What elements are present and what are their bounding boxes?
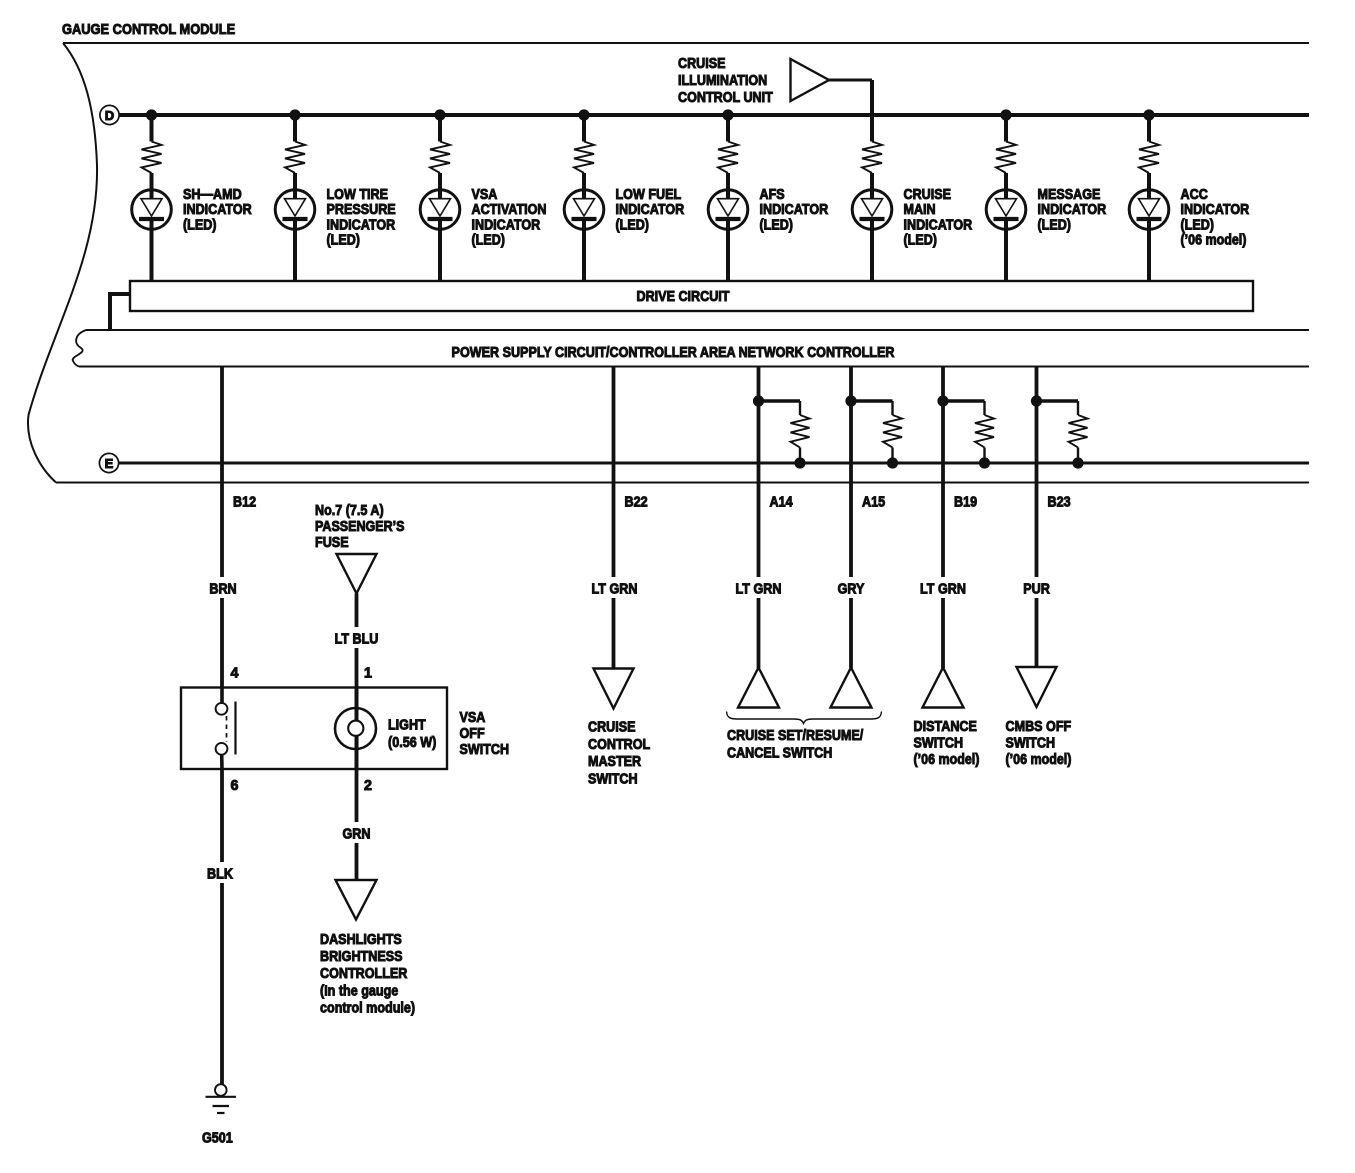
svg-text:DASHLIGHTS: DASHLIGHTS <box>320 932 402 948</box>
svg-text:CONTROLLER: CONTROLLER <box>320 966 408 982</box>
svg-text:B12: B12 <box>233 495 256 511</box>
svg-text:SWITCH: SWITCH <box>460 742 510 758</box>
svg-text:INDICATOR: INDICATOR <box>760 202 829 218</box>
svg-text:(’06 model): (’06 model) <box>1181 233 1247 249</box>
svg-text:DISTANCE: DISTANCE <box>914 719 977 735</box>
svg-text:LOW FUEL: LOW FUEL <box>616 187 682 203</box>
svg-text:(0.56 W): (0.56 W) <box>388 735 436 751</box>
svg-text:E: E <box>105 456 114 471</box>
svg-text:VSA: VSA <box>472 187 498 203</box>
svg-text:CANCEL SWITCH: CANCEL SWITCH <box>727 746 832 762</box>
svg-text:SWITCH: SWITCH <box>1006 736 1056 752</box>
svg-text:LT GRN: LT GRN <box>920 582 966 598</box>
svg-text:ILLUMINATION: ILLUMINATION <box>678 73 767 89</box>
svg-text:G501: G501 <box>202 1131 233 1147</box>
svg-text:D: D <box>105 108 114 123</box>
svg-text:INDICATOR: INDICATOR <box>327 217 396 233</box>
svg-text:INDICATOR: INDICATOR <box>183 202 252 218</box>
svg-text:CRUISE SET/RESUME/: CRUISE SET/RESUME/ <box>727 728 863 744</box>
svg-text:FUSE: FUSE <box>315 535 349 551</box>
svg-text:(In the gauge: (In the gauge <box>320 983 398 999</box>
svg-text:INDICATOR: INDICATOR <box>616 202 685 218</box>
svg-text:INDICATOR: INDICATOR <box>1181 202 1250 218</box>
svg-text:SH—AMD: SH—AMD <box>183 187 242 203</box>
svg-text:BRN: BRN <box>209 582 236 598</box>
svg-text:LT BLU: LT BLU <box>335 632 379 648</box>
svg-text:LOW TIRE: LOW TIRE <box>327 187 389 203</box>
svg-text:PRESSURE: PRESSURE <box>327 202 396 218</box>
svg-text:A15: A15 <box>862 495 885 511</box>
svg-text:GAUGE CONTROL MODULE: GAUGE CONTROL MODULE <box>62 22 235 38</box>
svg-text:POWER SUPPLY CIRCUIT/CONTROLLE: POWER SUPPLY CIRCUIT/CONTROLLER AREA NET… <box>452 345 895 361</box>
svg-text:MAIN: MAIN <box>904 202 936 218</box>
svg-text:A14: A14 <box>770 495 793 511</box>
svg-text:VSA: VSA <box>460 710 486 726</box>
svg-text:4: 4 <box>231 666 239 682</box>
svg-text:GRY: GRY <box>838 582 865 598</box>
svg-text:(LED): (LED) <box>1038 217 1072 233</box>
svg-text:MASTER: MASTER <box>588 754 642 770</box>
svg-text:ACTIVATION: ACTIVATION <box>472 202 547 218</box>
svg-text:2: 2 <box>364 778 372 794</box>
svg-text:GRN: GRN <box>343 827 371 843</box>
svg-text:BLK: BLK <box>207 867 233 883</box>
svg-text:6: 6 <box>231 778 239 794</box>
svg-text:OFF: OFF <box>460 726 485 742</box>
svg-text:INDICATOR: INDICATOR <box>1038 202 1107 218</box>
svg-text:(LED): (LED) <box>183 217 217 233</box>
svg-text:CRUISE: CRUISE <box>678 56 726 72</box>
svg-text:(LED): (LED) <box>1181 217 1215 233</box>
svg-text:(LED): (LED) <box>760 217 794 233</box>
svg-text:CMBS OFF: CMBS OFF <box>1006 719 1072 735</box>
svg-text:(LED): (LED) <box>904 233 938 249</box>
svg-text:DRIVE CIRCUIT: DRIVE CIRCUIT <box>637 289 730 305</box>
svg-text:LT GRN: LT GRN <box>736 582 782 598</box>
svg-text:1: 1 <box>364 666 372 682</box>
svg-text:B19: B19 <box>954 495 977 511</box>
svg-text:control module): control module) <box>320 1000 415 1016</box>
svg-text:MESSAGE: MESSAGE <box>1038 187 1101 203</box>
svg-text:PUR: PUR <box>1023 582 1050 598</box>
svg-text:PASSENGER’S: PASSENGER’S <box>315 519 405 535</box>
svg-text:(LED): (LED) <box>327 233 361 249</box>
svg-text:(LED): (LED) <box>616 217 650 233</box>
svg-text:B23: B23 <box>1048 495 1071 511</box>
svg-text:ACC: ACC <box>1181 187 1208 203</box>
svg-text:No.7 (7.5 A): No.7 (7.5 A) <box>315 503 384 519</box>
svg-text:CRUISE: CRUISE <box>588 720 636 736</box>
svg-text:CONTROL: CONTROL <box>588 737 650 753</box>
svg-text:CONTROL UNIT: CONTROL UNIT <box>678 90 773 106</box>
svg-text:(LED): (LED) <box>472 233 506 249</box>
svg-text:INDICATOR: INDICATOR <box>472 217 541 233</box>
svg-text:INDICATOR: INDICATOR <box>904 217 973 233</box>
svg-text:(’06 model): (’06 model) <box>914 752 980 768</box>
svg-text:B22: B22 <box>625 495 648 511</box>
svg-text:LIGHT: LIGHT <box>388 718 426 734</box>
svg-text:LT GRN: LT GRN <box>592 582 638 598</box>
svg-text:SWITCH: SWITCH <box>914 736 964 752</box>
svg-text:SWITCH: SWITCH <box>588 771 638 787</box>
svg-text:AFS: AFS <box>760 187 785 203</box>
svg-text:(’06 model): (’06 model) <box>1006 752 1072 768</box>
svg-text:CRUISE: CRUISE <box>904 187 952 203</box>
svg-text:BRIGHTNESS: BRIGHTNESS <box>320 949 403 965</box>
